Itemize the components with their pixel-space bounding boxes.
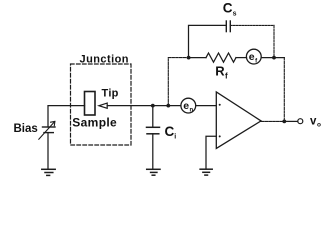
svg-text:e: e bbox=[249, 51, 255, 63]
svg-text:Bias: Bias bbox=[14, 123, 38, 135]
inverting input marker bbox=[219, 104, 221, 106]
node (output junction) bbox=[282, 120, 286, 124]
node (C_j tap) bbox=[151, 104, 155, 108]
svg-text:C: C bbox=[223, 1, 233, 16]
wire bbox=[189, 25, 227, 57]
capacitor C_j bbox=[147, 106, 160, 169]
wire bbox=[152, 106, 154, 127]
ground bbox=[200, 169, 212, 175]
svg-text:Sample: Sample bbox=[72, 115, 117, 129]
svg-text:Tip: Tip bbox=[102, 88, 119, 100]
wire bbox=[236, 57, 247, 59]
noninverting input marker bbox=[219, 135, 221, 137]
wire main input bbox=[153, 105, 181, 107]
svg-text:s: s bbox=[233, 10, 237, 17]
node (C_s right) bbox=[272, 56, 276, 60]
label v_o bbox=[310, 115, 321, 128]
wire bbox=[273, 25, 275, 57]
wire output bbox=[261, 120, 284, 122]
noise source e_n bbox=[181, 98, 196, 113]
svg-text:i: i bbox=[174, 134, 176, 141]
svg-text:C: C bbox=[165, 124, 175, 139]
wire bbox=[230, 24, 274, 26]
wire bbox=[48, 106, 85, 127]
junction dashed box bbox=[71, 64, 132, 145]
wire bbox=[261, 57, 284, 59]
node (feedback tap) bbox=[166, 104, 170, 108]
op-amp U1 bbox=[216, 92, 261, 148]
resistor R_f bbox=[206, 53, 236, 62]
tip arrow bbox=[99, 103, 153, 108]
wire bbox=[189, 57, 206, 59]
label C_j bbox=[165, 124, 177, 141]
svg-text:R: R bbox=[215, 64, 225, 79]
ground bbox=[147, 169, 160, 175]
wire bbox=[47, 133, 49, 169]
sample electrode bbox=[85, 92, 96, 116]
noise source e_f bbox=[246, 49, 261, 64]
wire bbox=[168, 57, 188, 59]
svg-text:e: e bbox=[183, 100, 189, 112]
capacitor C_s loop bbox=[189, 21, 275, 58]
wire bbox=[152, 134, 154, 169]
svg-text:Junction: Junction bbox=[80, 53, 129, 65]
wire riser to feedback bbox=[167, 58, 169, 106]
wire feedback to output bbox=[283, 58, 285, 122]
output terminal bbox=[298, 119, 303, 124]
wire to op-amp bbox=[196, 105, 217, 107]
svg-text:n: n bbox=[190, 108, 194, 114]
wire bbox=[284, 120, 298, 122]
bias source V (variable) bbox=[39, 106, 85, 169]
wire noninverting input bbox=[206, 136, 216, 168]
svg-text:f: f bbox=[225, 72, 228, 81]
node (C_s left) bbox=[187, 56, 191, 60]
label R_f bbox=[215, 64, 228, 81]
svg-text:o: o bbox=[317, 122, 321, 129]
ground bbox=[42, 169, 55, 175]
svg-text:f: f bbox=[255, 59, 258, 65]
label C_s bbox=[223, 1, 237, 18]
svg-text:v: v bbox=[310, 115, 317, 127]
wire bbox=[107, 105, 153, 107]
